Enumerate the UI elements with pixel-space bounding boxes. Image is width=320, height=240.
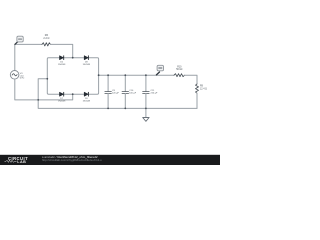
ground bbox=[145, 108, 147, 117]
junction C11 bottom / ground bbox=[145, 108, 147, 110]
svg-text:220 µF: 220 µF bbox=[151, 93, 159, 95]
svg-text:http://circuitlab.com/c/hyg6b8: http://circuitlab.com/c/hyg6b8re/rectifi… bbox=[42, 158, 102, 162]
junction C10 bottom bbox=[124, 108, 126, 110]
wire junction down to ground rail bbox=[38, 100, 197, 109]
svg-text:6 Hz: 6 Hz bbox=[20, 78, 25, 80]
svg-text:220 µF: 220 µF bbox=[112, 93, 120, 95]
wire DC+ rail from bridge right-mid to R10 bbox=[99, 74, 174, 76]
capacitor C11 bbox=[145, 75, 147, 91]
resistor R10 bbox=[174, 74, 185, 77]
wire top from node corner to resistor R6 bbox=[15, 43, 42, 45]
diode D7 bbox=[60, 92, 64, 96]
svg-text:1N4148: 1N4148 bbox=[83, 64, 91, 66]
svg-text:2.2 Ω: 2.2 Ω bbox=[43, 37, 49, 40]
node flag Vin bbox=[15, 41, 18, 44]
svg-text:1N4148: 1N4148 bbox=[83, 100, 91, 102]
junction C9 top bbox=[107, 74, 109, 76]
svg-text:12.4 Ω: 12.4 Ω bbox=[200, 89, 207, 91]
wire bridge left-mid to junction bbox=[38, 79, 47, 100]
junction bridge left-mid bbox=[46, 78, 48, 80]
watermark bar bbox=[0, 155, 220, 165]
diode D6 bbox=[60, 56, 64, 60]
wire source bottom lead to rail bbox=[15, 79, 38, 100]
wire rail to bridge bottom-mid bbox=[38, 94, 72, 100]
junction C11 top bbox=[145, 74, 147, 76]
wire from R6 to bridge top-mid bbox=[50, 44, 72, 57]
svg-text:100 µF: 100 µF bbox=[129, 93, 137, 95]
bridge rectangle wires bbox=[47, 58, 98, 94]
wire R10 to right corner down to R9 bbox=[185, 75, 198, 84]
voltage source V3 bbox=[10, 71, 19, 80]
capacitor C9 bbox=[107, 75, 109, 91]
capacitor C10 bbox=[124, 75, 126, 91]
junction bridge right-mid bbox=[98, 74, 100, 76]
resistor R6 bbox=[42, 43, 50, 46]
wire R9 bottom to ground rail bbox=[196, 93, 198, 108]
svg-text:56 kΩ: 56 kΩ bbox=[176, 69, 182, 71]
svg-text:1N4148: 1N4148 bbox=[58, 100, 66, 102]
svg-text:1N4148: 1N4148 bbox=[58, 64, 66, 66]
junction bridge top-mid bbox=[72, 57, 74, 59]
diode D8 bbox=[84, 56, 88, 60]
junction C10 top bbox=[124, 74, 126, 76]
wire source top lead bbox=[14, 44, 16, 70]
node flag Vout bbox=[156, 72, 159, 75]
svg-text:LAB: LAB bbox=[17, 160, 26, 164]
resistor R9 bbox=[196, 84, 199, 93]
junction source return bbox=[37, 99, 39, 101]
junction C9 bottom bbox=[107, 108, 109, 110]
diode D9 bbox=[84, 92, 88, 96]
junction bridge bottom-mid bbox=[72, 93, 74, 95]
